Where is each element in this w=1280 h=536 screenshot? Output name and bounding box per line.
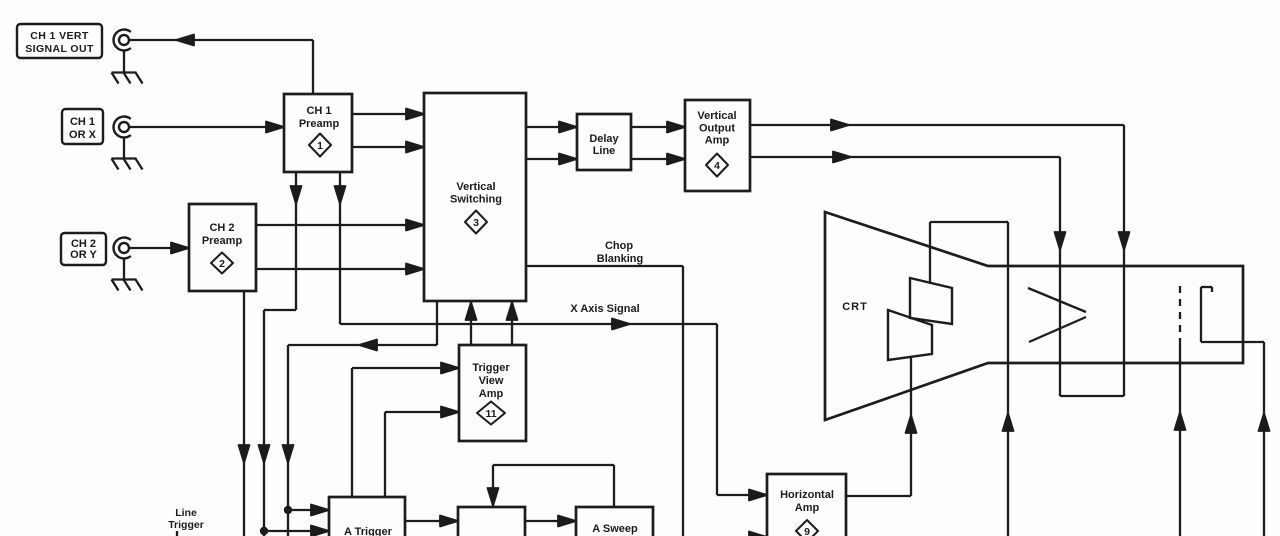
svg-text:CH 2: CH 2	[209, 222, 234, 234]
text Chop Blanking	[597, 240, 643, 265]
wire J2 to CH1 preamp	[129, 122, 284, 133]
ground below J3	[112, 259, 143, 291]
svg-text:OR X: OR X	[69, 129, 97, 141]
wire upper plate loop feed	[930, 222, 1014, 536]
wire vertical output amp lower to CRT plate	[750, 152, 1066, 397]
block Vertical Switching U3	[424, 93, 526, 301]
wire CH1 preamp bottom left to A trigger input B	[259, 172, 330, 536]
wire horizontal amp to CRT deflection plate	[846, 358, 917, 496]
wire A trigger to gate	[405, 516, 458, 527]
wire A trigger pickoff to trigger view amp input A	[352, 363, 459, 498]
svg-text:9: 9	[804, 526, 810, 536]
block A Trigger	[329, 497, 405, 536]
svg-text:Vertical: Vertical	[697, 110, 736, 122]
block Delay Line	[577, 114, 631, 170]
svg-text:CH 1: CH 1	[306, 105, 331, 117]
wire CH2 preamp out A to switching	[256, 220, 424, 231]
text Line Trigger	[168, 507, 204, 536]
svg-text:Amp: Amp	[795, 502, 820, 514]
wire trigger view amp up to switching A	[466, 301, 477, 345]
svg-text:A Trigger: A Trigger	[344, 526, 393, 536]
wire switching to delay line A	[526, 122, 577, 133]
wire CH1 preamp out A to switching	[352, 109, 424, 120]
svg-text:Line: Line	[593, 145, 616, 157]
svg-text:CH 1 VERT: CH 1 VERT	[30, 30, 89, 42]
svg-text:Switching: Switching	[450, 194, 502, 206]
svg-text:Trigger: Trigger	[472, 362, 510, 374]
wire U-link between vertical deflection leads	[1060, 395, 1124, 397]
svg-text:Vertical: Vertical	[456, 181, 495, 193]
CRT envelope	[825, 212, 1243, 420]
wire CH1 preamp bottom right, X axis signal to horizontal amp	[335, 172, 768, 501]
wire horizontal amp second input fragment	[749, 532, 767, 536]
svg-text:CRT: CRT	[842, 301, 868, 313]
block A Sweep generator	[576, 507, 653, 536]
wire CH1 preamp out B to switching	[352, 142, 424, 153]
svg-text:Chop: Chop	[605, 240, 633, 252]
svg-text:4: 4	[714, 160, 720, 172]
wire J3 to CH2 preamp	[129, 243, 189, 254]
svg-text:A Sweep: A Sweep	[592, 523, 638, 535]
svg-text:Preamp: Preamp	[299, 118, 340, 130]
wire switching to delay line B	[526, 154, 577, 165]
svg-text:3: 3	[473, 217, 479, 229]
wire CH1 preamp to CH1 vert signal out	[129, 35, 313, 95]
wire vertical output amp upper to CRT plate	[750, 120, 1130, 397]
svg-text:2: 2	[219, 258, 225, 270]
wire gate to A sweep	[525, 516, 576, 527]
wire CH2 preamp bottom output down	[239, 291, 250, 536]
svg-text:CH 1: CH 1	[70, 116, 95, 128]
svg-text:Blanking: Blanking	[597, 253, 643, 265]
label CH 1 OR X	[62, 109, 103, 144]
wire CH2 preamp out B to switching	[256, 264, 424, 275]
block Trigger View Amp U11	[459, 345, 526, 441]
block CH 1 Preamp U1	[284, 94, 352, 172]
ground below J2	[112, 138, 143, 170]
svg-text:X Axis Signal: X Axis Signal	[570, 303, 639, 315]
label CH 2 OR Y	[61, 233, 106, 265]
CRT lower deflection plate	[888, 310, 932, 360]
svg-text:Amp: Amp	[705, 135, 730, 147]
svg-text:Amp: Amp	[479, 388, 504, 400]
svg-text:Preamp: Preamp	[202, 235, 243, 247]
block CH 2 Preamp U2	[189, 204, 256, 291]
svg-text:Line: Line	[175, 507, 197, 519]
svg-text:Trigger: Trigger	[168, 519, 204, 531]
wire A trigger pickoff to trigger view amp input B	[385, 407, 459, 498]
wire trigger view amp up to switching B	[507, 301, 518, 345]
svg-text:Delay: Delay	[589, 133, 619, 145]
svg-text:1: 1	[317, 140, 323, 152]
CRT upper deflection plate	[910, 278, 952, 324]
CRT electron gun beam symbol	[1028, 288, 1086, 342]
wire chop blanking from switching	[526, 266, 683, 536]
block Horizontal Amp U9	[767, 474, 846, 536]
connector J2 CH1 input	[113, 117, 130, 138]
connector J3 CH2 input	[113, 238, 130, 259]
wire CRT grid (dashed)	[1175, 286, 1186, 536]
label CH 1 VERT SIGNAL OUT	[17, 24, 102, 58]
block A sweep gate (partially visible)	[458, 507, 525, 536]
wire switching pickoff down to A trigger input A	[283, 301, 438, 536]
ground below J1	[112, 51, 143, 84]
svg-text:OR Y: OR Y	[70, 249, 97, 261]
svg-text:View: View	[479, 375, 504, 387]
svg-text:SIGNAL OUT: SIGNAL OUT	[25, 43, 94, 55]
connector J1 CH1 vert signal out	[113, 30, 130, 51]
CRT cathode and heater lead	[1201, 287, 1270, 536]
wire delay line to vertical output amp A	[631, 122, 685, 133]
block Vertical Output Amp U4	[685, 100, 750, 191]
wire A sweep holdoff feedback to gate	[488, 465, 615, 507]
svg-text:Horizontal: Horizontal	[780, 489, 834, 501]
svg-text:11: 11	[485, 408, 496, 420]
wire delay line to vertical output amp B	[631, 154, 685, 165]
svg-text:Output: Output	[699, 123, 735, 135]
